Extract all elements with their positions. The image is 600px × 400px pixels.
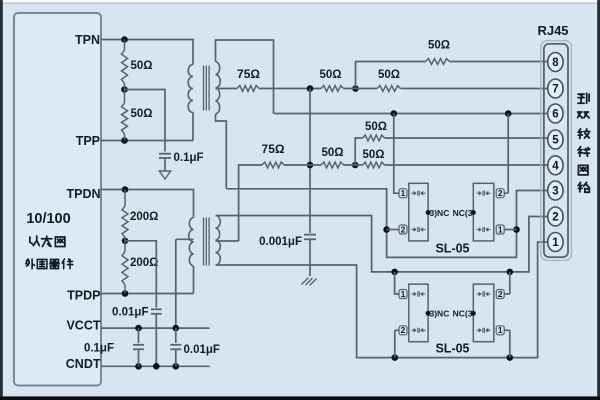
RJ45 pin 4 <box>548 156 563 175</box>
capacitor 0.01uF (200ohm mid to CNDT) <box>151 308 162 310</box>
svg-text:NC(3: NC(3 <box>453 309 473 319</box>
node TPDN junction <box>122 186 129 193</box>
svg-text:3: 3 <box>552 186 558 198</box>
resistor 50ohm b (pin7 row) <box>377 86 401 92</box>
wire to pin 8 <box>450 61 549 63</box>
svg-text:SL-05: SL-05 <box>435 342 469 356</box>
ground (slashes) <box>302 278 317 286</box>
wire pin5 branch <box>355 138 362 165</box>
svg-text:200Ω: 200Ω <box>130 211 158 223</box>
capacitor 0.1uF (to ground) <box>159 153 171 155</box>
svg-text:0.001μF: 0.001μF <box>259 236 302 248</box>
resistor 50ohm (pin5 row) <box>363 135 385 141</box>
svg-text:SL-05: SL-05 <box>435 241 469 255</box>
resistor 50ohm a (pin4 row) <box>321 162 344 168</box>
RJ45 pin 1 <box>548 233 563 252</box>
border frame <box>0 0 600 3</box>
resistor 50ohm lower (TPP) <box>124 90 126 104</box>
svg-text:VCCT: VCCT <box>66 319 100 333</box>
svg-text:0.1μF: 0.1μF <box>174 152 204 164</box>
svg-text:50Ω: 50Ω <box>321 147 343 159</box>
RJ45 pin 3 <box>548 181 563 200</box>
SL-05 NC pins <box>426 210 431 215</box>
node TPN junction <box>121 36 128 43</box>
node A (75ohm/cap junction) <box>307 85 314 92</box>
SL-05 right pin 1 <box>496 326 504 335</box>
svg-text:3)NC: 3)NC <box>430 309 450 319</box>
svg-text:NC(3: NC(3 <box>453 208 473 218</box>
resistor 200ohm lower <box>124 241 126 252</box>
svg-text:5: 5 <box>552 135 559 147</box>
wire pin7 row <box>259 88 321 90</box>
wire center verticals <box>309 89 311 230</box>
svg-text:1: 1 <box>401 188 406 198</box>
wire T1 center tap <box>216 88 238 90</box>
svg-text:200Ω: 200Ω <box>130 257 158 269</box>
SL-05 right pin 2 <box>496 189 504 198</box>
svg-text:0.01μF: 0.01μF <box>184 344 220 356</box>
SL-05 left pin 2 <box>399 225 407 234</box>
RJ45 pin 5 <box>548 130 563 149</box>
svg-text:75Ω: 75Ω <box>262 142 285 156</box>
svg-text:TPP: TPP <box>76 134 100 148</box>
wire TPP <box>101 113 193 141</box>
wire T1 secondary top to pin6 column <box>216 40 274 114</box>
svg-text:RJ45: RJ45 <box>537 23 568 38</box>
wire to pin 7 <box>401 88 549 90</box>
svg-text:2: 2 <box>498 289 503 299</box>
node mid 200ohm junction <box>122 238 129 245</box>
svg-text:TPDN: TPDN <box>66 187 100 201</box>
svg-text:7: 7 <box>552 84 558 96</box>
transformer T1 core <box>204 66 210 111</box>
wire TPDP <box>101 266 194 294</box>
RJ45 pin 8 <box>548 53 563 72</box>
resistor 75ohm (pin7 row) <box>237 86 259 92</box>
svg-text:TPN: TPN <box>75 33 100 47</box>
SL-05 lower leads <box>395 272 399 294</box>
resistor 50ohm (pin8 row) <box>426 59 450 65</box>
IC box 10/100 Ethernet peripheral <box>14 13 101 386</box>
svg-text:1: 1 <box>498 325 503 335</box>
SL-05 left pin 2 <box>399 326 407 335</box>
resistor 75ohm (pin4 row) <box>262 162 284 168</box>
transformer T2 core <box>204 218 210 266</box>
wire pin4 row <box>284 164 321 166</box>
IC box text line2: yi tai wang <box>30 236 39 245</box>
resistor 50ohm upper (TPN) <box>124 40 126 51</box>
node TPP junction <box>121 137 128 144</box>
resistor 200ohm upper <box>124 190 126 207</box>
svg-text:75Ω: 75Ω <box>237 67 260 81</box>
svg-text:CNDT: CNDT <box>66 357 101 371</box>
wire mid node to 0.01uF cap <box>125 241 156 308</box>
wire mid node to 0.1uF cap <box>125 90 166 152</box>
SL-05 left box <box>409 183 428 241</box>
svg-text:4: 4 <box>552 161 559 173</box>
svg-text:50Ω: 50Ω <box>131 108 153 120</box>
transformer T2 secondary coil <box>216 216 221 266</box>
svg-text:TPDP: TPDP <box>67 289 100 303</box>
svg-text:8: 8 <box>552 57 559 69</box>
SL-05 left box <box>409 284 428 342</box>
wire T2 primary center tap to VCCT <box>176 239 194 328</box>
wire to pin 5 <box>385 137 549 139</box>
transformer T1 secondary coil <box>216 62 221 115</box>
svg-text:3)NC: 3)NC <box>430 208 450 218</box>
svg-text:50Ω: 50Ω <box>319 69 341 81</box>
resistor 50ohm a (pin7 row) <box>321 86 344 92</box>
svg-text:2: 2 <box>552 212 558 224</box>
svg-text:1: 1 <box>401 289 406 299</box>
SL-05 upper leads <box>394 114 399 194</box>
SL-05 right pin 1 <box>496 225 504 234</box>
RJ45 pin 2 <box>548 207 563 226</box>
SL-05 left pin 1 <box>399 189 407 198</box>
transformer T2 primary coil <box>189 218 194 267</box>
wire TPDN <box>101 190 194 218</box>
wire VCCT rail <box>101 327 210 329</box>
svg-text:2: 2 <box>401 325 406 335</box>
capacitor 0.001uF <box>309 230 311 234</box>
node B (pin8 branch) <box>352 85 359 92</box>
resistor 50ohm b (pin4 row) <box>363 162 385 168</box>
wire to pin 4 <box>385 164 549 166</box>
node on pin4 row <box>307 162 314 169</box>
svg-text:2: 2 <box>401 224 406 234</box>
wire TPN <box>101 40 193 65</box>
wire CNDT rail <box>101 365 210 367</box>
capacitor 0.01uF (VCCT-CNDT) <box>175 328 177 343</box>
SL-05 NC pins <box>426 311 431 316</box>
SL-05 right pin 2 <box>496 290 504 299</box>
wire T1 bottom to pin3 via SL05 <box>226 189 548 258</box>
svg-text:50Ω: 50Ω <box>428 40 450 52</box>
SL-05 right box <box>473 284 494 342</box>
wire pin4 row mid <box>344 164 363 166</box>
SL-05 left pin 1 <box>399 290 407 299</box>
wire T2 top to pin2 via SL05 junctions <box>216 216 549 272</box>
wire pin8 branch <box>356 62 426 89</box>
wire T2 center tap up <box>216 165 263 241</box>
svg-text:2: 2 <box>498 188 503 198</box>
svg-text:1: 1 <box>498 224 503 234</box>
node mid 50ohm junction <box>121 86 128 93</box>
IC box text line3: wai wei qi jian <box>26 259 35 269</box>
wire T1 secondary bottom <box>216 114 227 189</box>
node SL05-U pin1R <box>513 226 520 233</box>
node D (pin5 branch) <box>352 162 359 169</box>
transformer T1 primary coil <box>188 65 193 113</box>
node pin6/SL05 right <box>505 110 512 117</box>
wire pin7 row mid <box>344 88 378 90</box>
ground (triangle) <box>159 171 170 179</box>
svg-text:0.01μF: 0.01μF <box>112 307 148 319</box>
svg-text:0.1μF: 0.1μF <box>84 343 114 355</box>
RJ45 pin 6 <box>548 104 563 123</box>
svg-text:1: 1 <box>552 237 559 249</box>
svg-text:10/100: 10/100 <box>26 211 70 227</box>
svg-text:50Ω: 50Ω <box>362 149 384 161</box>
vertical label: dao shuang jiao xian wang luo <box>578 93 589 103</box>
SL-05 right box <box>473 183 494 241</box>
node TPDP junction <box>122 290 129 297</box>
svg-text:50Ω: 50Ω <box>378 69 400 81</box>
wire to pin 6 <box>274 113 549 115</box>
RJ45 pin 7 <box>548 79 563 98</box>
node SL05-U pin2 <box>383 226 390 233</box>
wire T2 bottom to pin1 via SL05 rail <box>216 242 549 358</box>
capacitor 0.1uF (VCCT-CNDT) <box>138 328 140 343</box>
svg-text:6: 6 <box>552 109 558 121</box>
svg-text:50Ω: 50Ω <box>365 121 387 133</box>
node pin6/SL05 left <box>391 110 398 117</box>
svg-text:50Ω: 50Ω <box>131 60 153 72</box>
